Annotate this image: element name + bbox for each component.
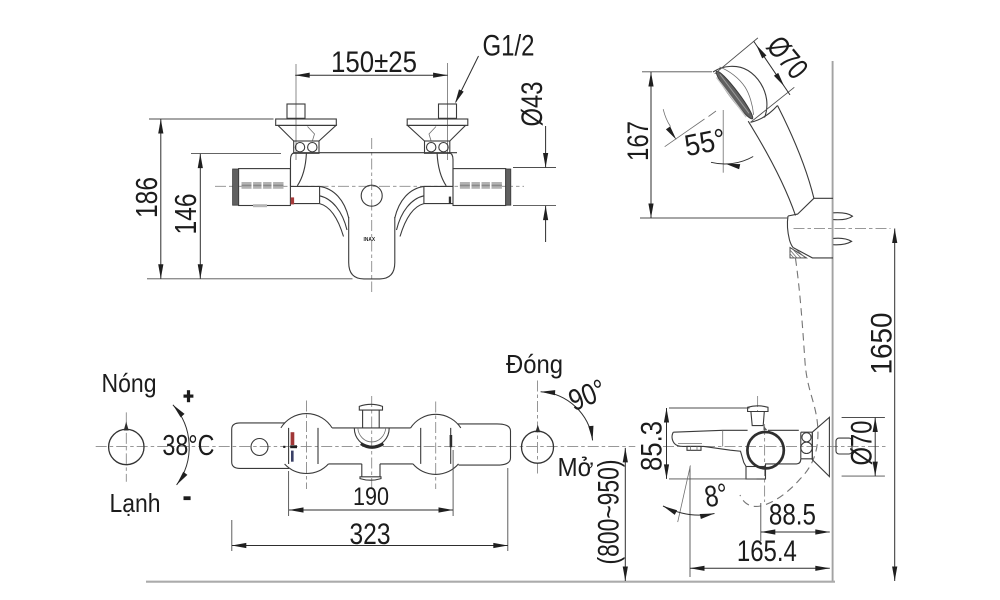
svg-text:146: 146 [168, 194, 203, 235]
svg-text:(800~950): (800~950) [593, 460, 626, 565]
svg-text:1650: 1650 [866, 313, 899, 375]
svg-text:323: 323 [350, 518, 391, 551]
svg-text:85.3: 85.3 [636, 421, 669, 471]
svg-text:Nóng: Nóng [102, 368, 157, 398]
svg-text:190: 190 [353, 483, 389, 511]
svg-text:167: 167 [622, 121, 655, 161]
svg-text:Ø43: Ø43 [516, 82, 549, 127]
svg-text:Lạnh: Lạnh [110, 488, 161, 518]
svg-text:38°C: 38°C [162, 430, 214, 462]
svg-text:165.4: 165.4 [737, 535, 797, 568]
svg-text:186: 186 [129, 177, 164, 218]
svg-text:Đóng: Đóng [506, 349, 563, 379]
svg-text:150±25: 150±25 [331, 46, 417, 79]
svg-text:Ø70: Ø70 [846, 421, 879, 466]
svg-text:G1/2: G1/2 [483, 30, 535, 63]
svg-text:Mở: Mở [558, 452, 594, 482]
svg-text:88.5: 88.5 [769, 499, 816, 532]
svg-text:INAX: INAX [364, 237, 376, 243]
